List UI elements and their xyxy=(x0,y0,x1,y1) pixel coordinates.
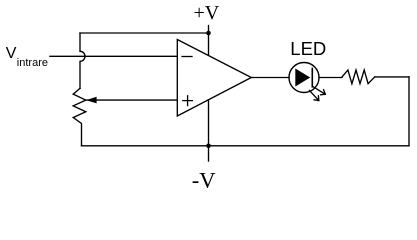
svg-text:V: V xyxy=(6,45,17,62)
svg-text:LED: LED xyxy=(290,38,326,59)
svg-text:intrare: intrare xyxy=(17,57,48,69)
svg-text:+V: +V xyxy=(194,2,220,24)
svg-text:-V: -V xyxy=(192,167,216,190)
